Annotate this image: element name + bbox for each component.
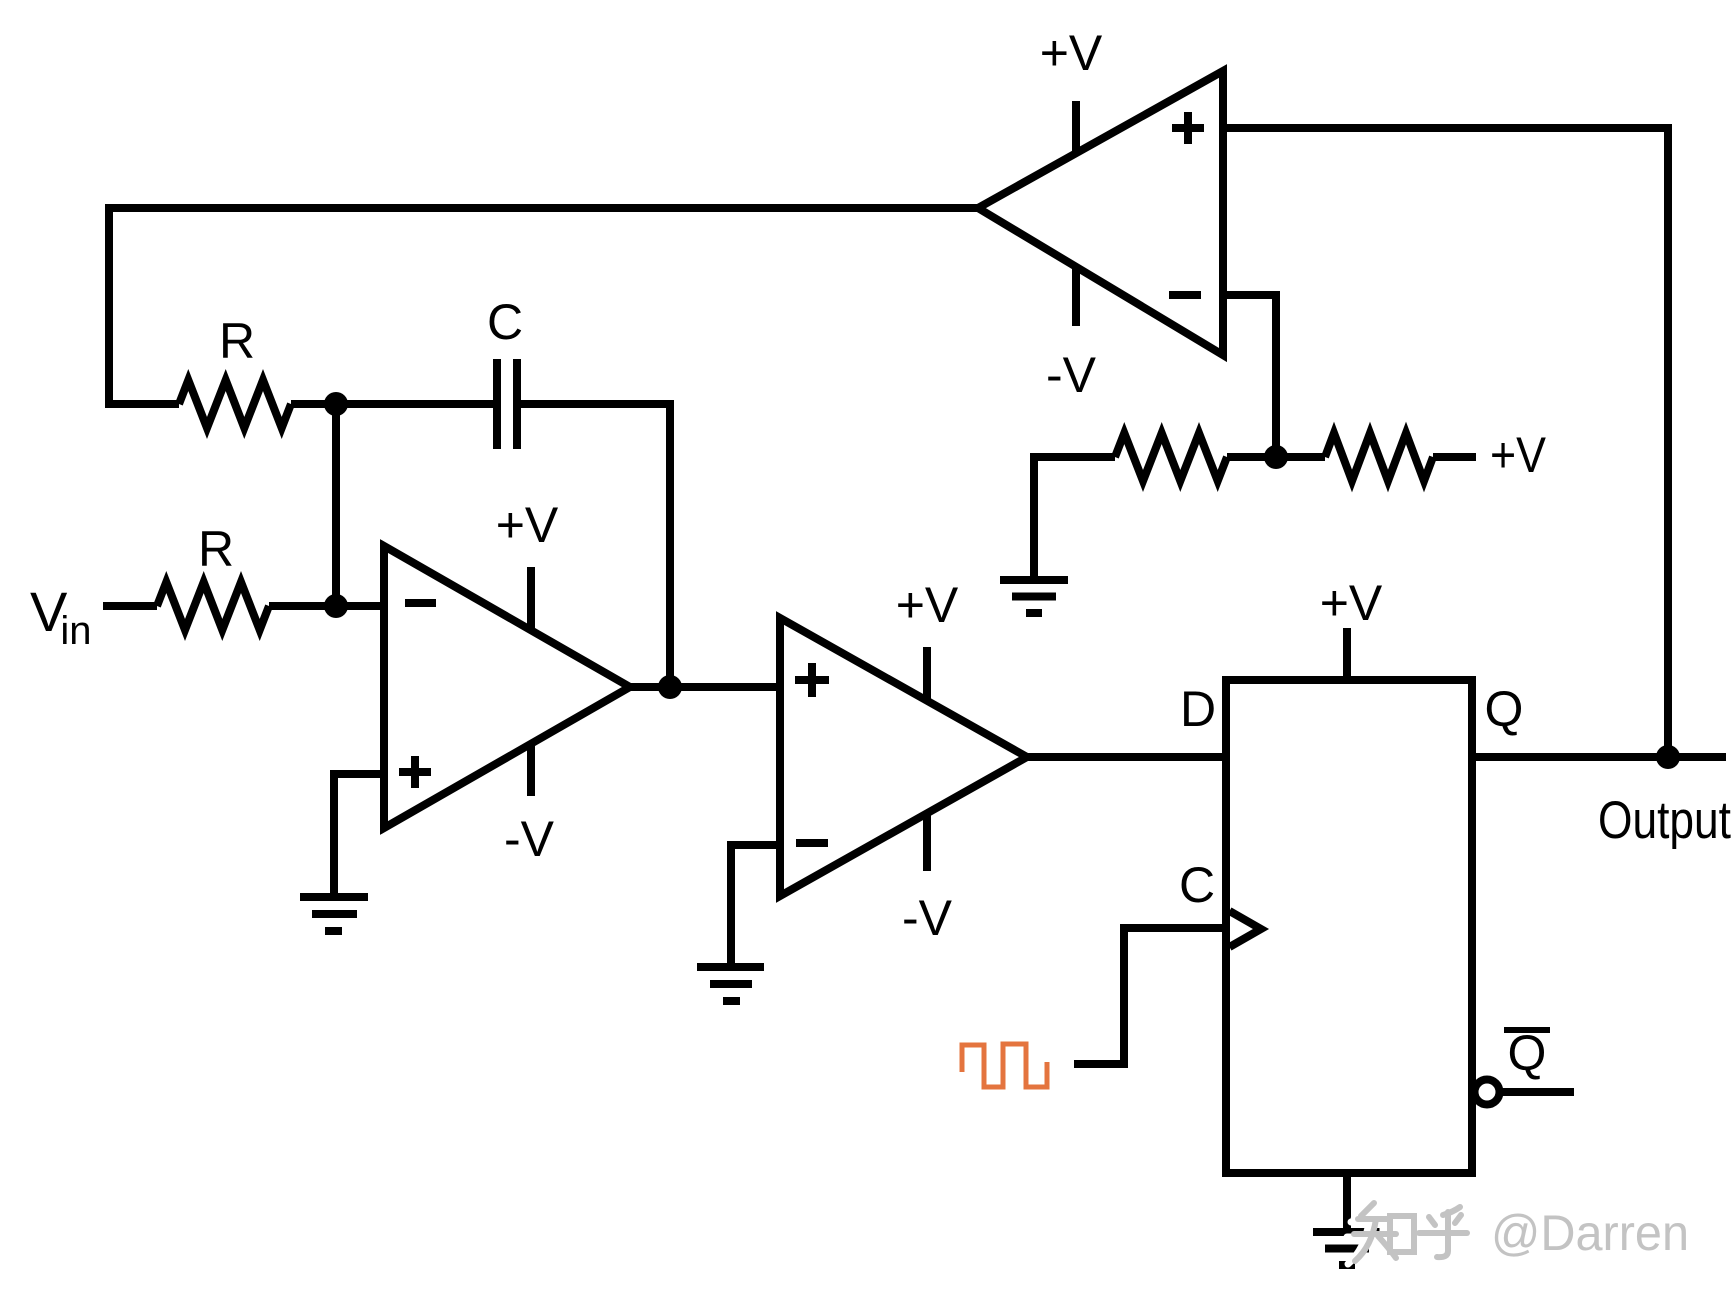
wire Qbar output — [1500, 1088, 1574, 1096]
op-amp U1 integrator triangle — [384, 546, 630, 828]
watermark glyph 乎 strokes — [1419, 1207, 1467, 1257]
wire node A vertical (summing node between R1 and R2) — [332, 404, 340, 606]
watermark 知乎 @Darren — [1347, 1203, 1689, 1264]
D flip-flop U4 body — [1226, 680, 1472, 1173]
U3 +V stub — [1072, 101, 1080, 152]
Qbar bubble — [1475, 1080, 1500, 1105]
capacitor C1 right plate — [513, 359, 521, 449]
U2 plus symbol — [795, 663, 829, 697]
wire R1 to capacitor left plate — [291, 400, 493, 408]
svg-text:R: R — [219, 313, 255, 369]
U3 -V stub — [1072, 268, 1080, 326]
wire R3 to node B — [1227, 453, 1276, 461]
resistor R1 (top feedback R) — [179, 380, 291, 428]
node A2 dot (inverting input junction) — [324, 594, 348, 618]
wire clock input — [1074, 928, 1226, 1064]
watermark white emboss layer — [1347, 1206, 1682, 1264]
wire R4 to +V — [1433, 453, 1476, 461]
svg-text:D: D — [1180, 681, 1216, 737]
wire U3 - input to divider node — [1223, 295, 1276, 457]
U2 minus symbol — [796, 839, 828, 847]
wire U2 output to flip-flop D — [1027, 753, 1226, 761]
wire Q output to node C — [1472, 753, 1726, 761]
wire U1 output to U2 + input — [630, 683, 780, 691]
svg-text:+V: +V — [896, 577, 959, 633]
svg-text:C: C — [487, 294, 523, 350]
wire feedback top loop from U3 output to R1 — [109, 208, 978, 404]
junction node dots — [324, 392, 1680, 769]
resistor R2 (input R) — [157, 582, 269, 630]
ground G3 (divider) — [1000, 580, 1068, 613]
wire Vin input — [103, 602, 157, 610]
capacitor C1 left plate — [493, 359, 501, 449]
U1 minus symbol — [405, 599, 436, 607]
svg-text:-V: -V — [504, 811, 555, 867]
U3 plus symbol — [1172, 112, 1204, 144]
wire flip-flop to ground G4 — [1343, 1173, 1351, 1229]
svg-text:-V: -V — [1046, 347, 1097, 403]
svg-text:Q: Q — [1485, 681, 1524, 737]
node C dot (output junction) — [1656, 745, 1680, 769]
resistor R3 (divider left) — [1115, 433, 1227, 481]
svg-text:+V: +V — [1490, 427, 1547, 483]
svg-text:-V: -V — [902, 890, 953, 946]
svg-text:@Darren: @Darren — [1491, 1205, 1689, 1261]
wire U2 inverting input to ground — [731, 845, 780, 964]
watermark glyph 知 strokes — [1354, 1203, 1414, 1261]
U2 -V stub — [923, 813, 931, 871]
node A dot (R1/R2/C junction top) — [324, 392, 348, 416]
ground G2 (U2 - input) — [697, 967, 764, 1001]
wire node B to R4 — [1276, 453, 1325, 461]
wire U3 + input feedback from output node — [1223, 128, 1668, 757]
svg-text:Output: Output — [1598, 791, 1731, 850]
op-amp U2 comparator triangle — [780, 618, 1027, 896]
svg-text:+V: +V — [1040, 25, 1103, 81]
wire U1 non-inverting input to ground — [334, 774, 384, 893]
U2 +V stub — [923, 647, 931, 702]
U1 -V stub — [527, 744, 535, 796]
U3 minus symbol — [1169, 291, 1201, 299]
svg-text:+V: +V — [496, 497, 559, 553]
U1 plus symbol — [399, 756, 431, 788]
Qbar overline — [1504, 1027, 1550, 1033]
svg-text:+V: +V — [1320, 575, 1383, 631]
U4 clock edge triangle — [1230, 911, 1262, 947]
node B dot (divider junction) — [1264, 445, 1288, 469]
clock waveform symbol (orange) — [962, 1044, 1047, 1087]
U4 +V stub — [1343, 628, 1351, 680]
U1 +V stub — [527, 567, 535, 630]
wire divider left to ground — [1034, 457, 1115, 578]
wire capacitor right plate to U1 output node — [521, 404, 670, 687]
op-amp U3 top comparator triangle (points left) — [978, 71, 1223, 355]
wire R2 to U1 inverting input — [269, 602, 384, 610]
svg-text:Q: Q — [1508, 1025, 1547, 1081]
svg-text:C: C — [1179, 857, 1215, 913]
svg-text:R: R — [198, 521, 234, 577]
resistor R4 (divider right) — [1325, 433, 1433, 481]
node U1 output dot — [658, 675, 682, 699]
ground G1 (U1 + input) — [300, 897, 368, 931]
ground G4 (flip-flop) — [1313, 1232, 1381, 1265]
